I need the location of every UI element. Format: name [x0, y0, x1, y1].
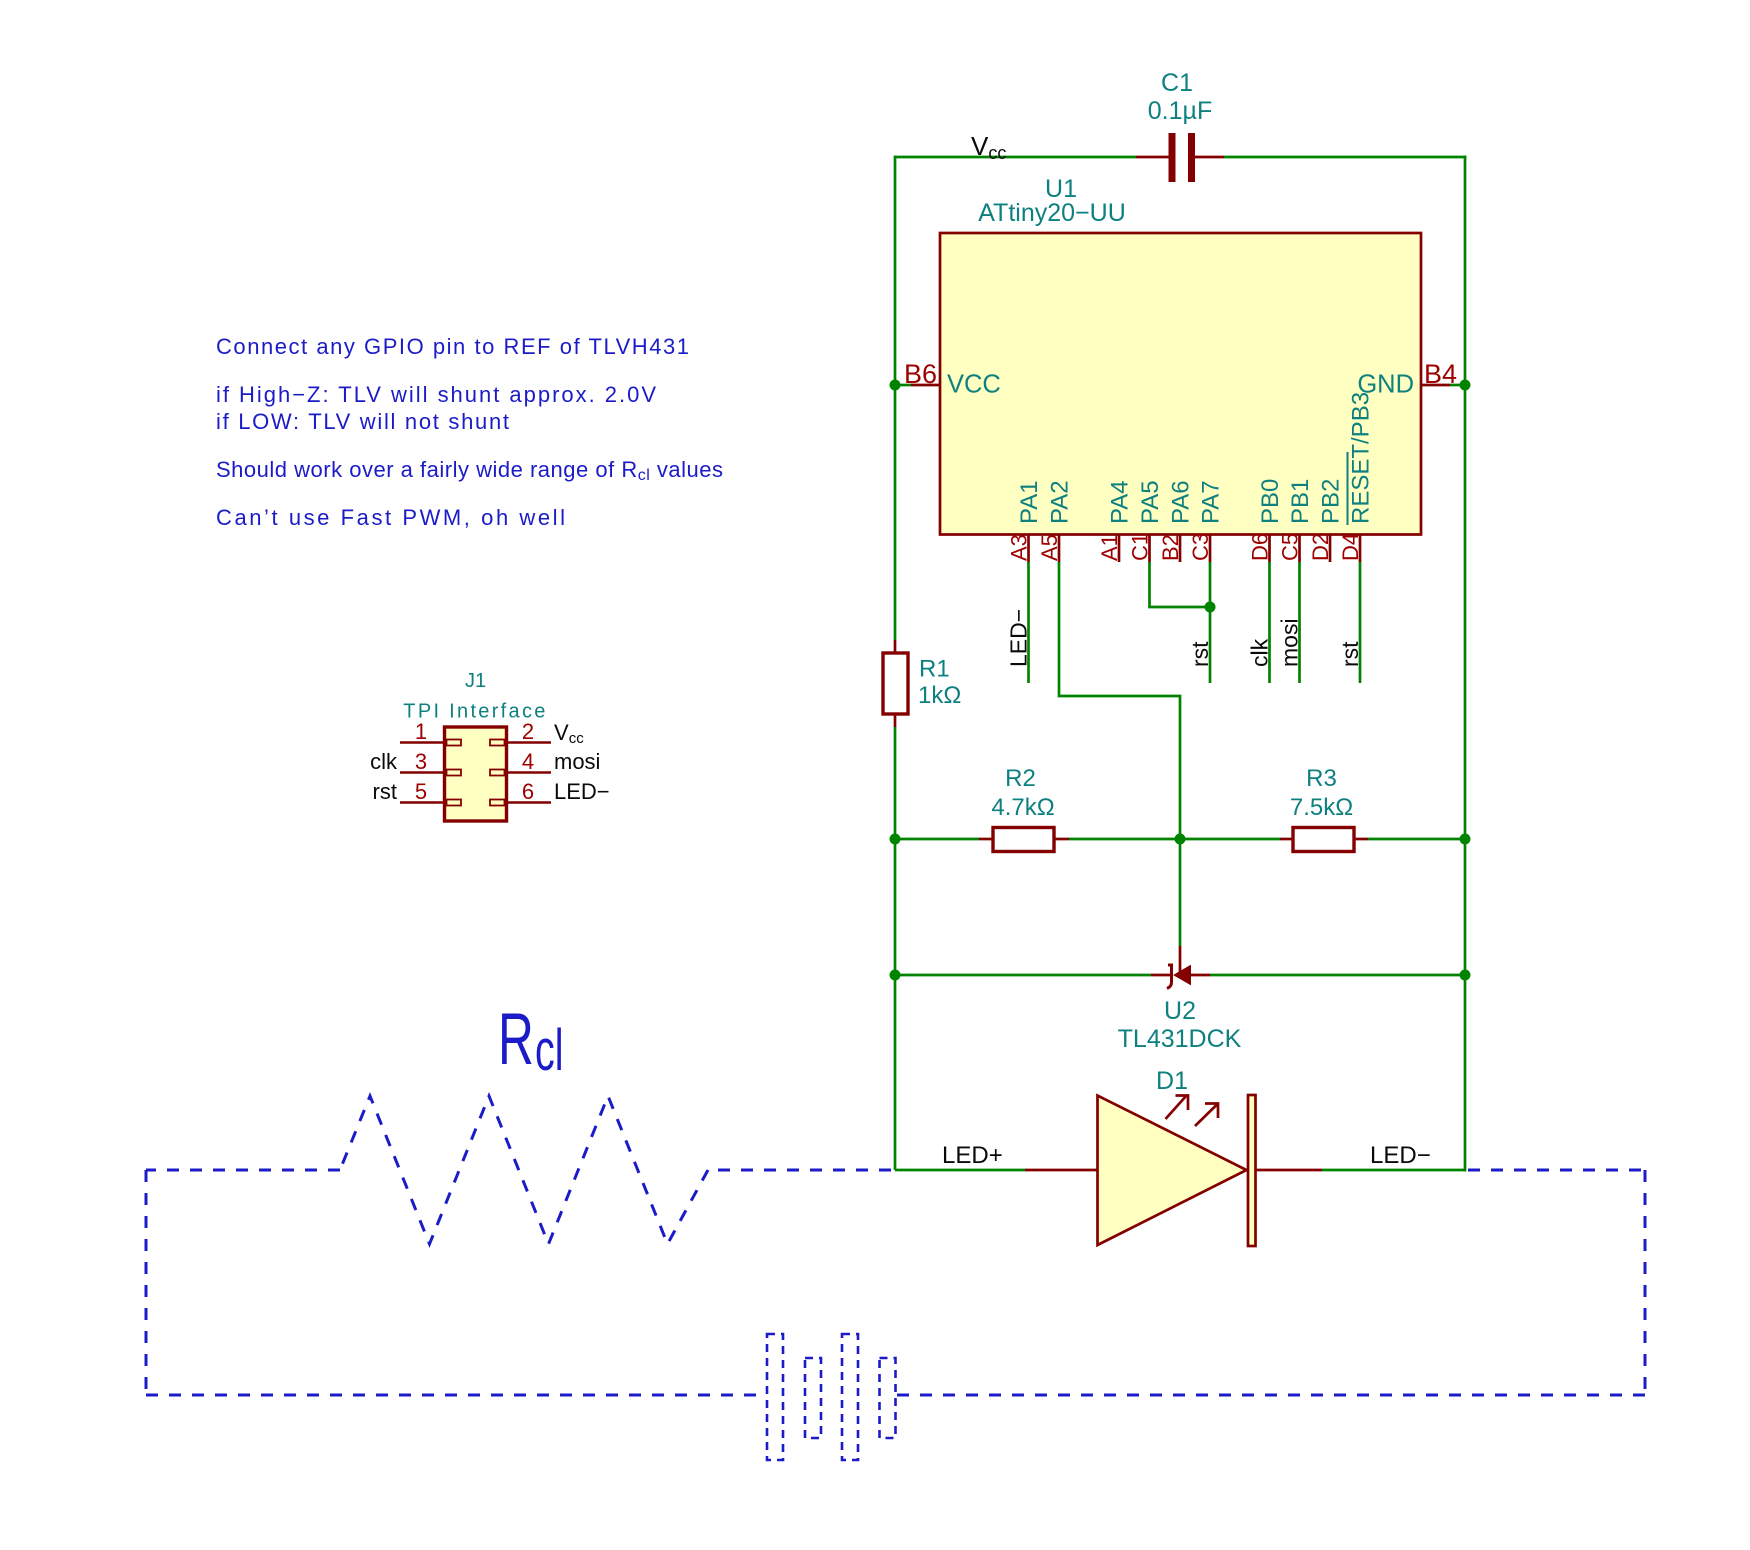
wire dashed LED- to right corner	[1468, 1169, 1645, 1172]
svg-text:rst: rst	[1337, 641, 1363, 667]
D1 triangle	[1098, 1096, 1247, 1246]
resistor R2 pins	[979, 838, 994, 841]
svg-text:J1: J1	[465, 670, 486, 692]
U2 cathode bar	[1167, 965, 1172, 989]
svg-text:TL431DCK: TL431DCK	[1118, 1025, 1242, 1053]
svg-text:D6: D6	[1248, 533, 1273, 561]
battery plate short 1	[805, 1358, 821, 1438]
svg-text:clk: clk	[370, 749, 398, 774]
svg-text:0.1µF: 0.1µF	[1148, 97, 1212, 125]
svg-text:D1: D1	[1156, 1067, 1188, 1095]
wire B4 stub	[1450, 384, 1465, 387]
wire Vcc top right segment	[1224, 156, 1467, 159]
wire R2 row left	[895, 838, 979, 841]
svg-text:A5: A5	[1037, 534, 1062, 561]
svg-text:mosi: mosi	[554, 749, 600, 774]
svg-text:PA2: PA2	[1047, 480, 1074, 524]
svg-text:C3: C3	[1188, 533, 1213, 561]
svg-text:U2: U2	[1164, 997, 1196, 1025]
svg-text:D2: D2	[1308, 533, 1333, 561]
U2 triangle	[1174, 966, 1191, 985]
svg-text:LED−: LED−	[1006, 609, 1032, 667]
wire U2 ref vertical	[1179, 839, 1182, 946]
wire pin PA7 down	[1209, 562, 1212, 683]
wire pin PA2 down + elbow	[1059, 562, 1180, 839]
junction R3 right	[1460, 834, 1471, 845]
svg-text:PB2: PB2	[1318, 479, 1345, 524]
pin B6 VCC line	[911, 384, 940, 387]
svg-text:B6: B6	[904, 359, 937, 389]
svg-text:D4: D4	[1338, 533, 1363, 561]
junction PA5/PA7	[1205, 602, 1216, 613]
svg-text:A1: A1	[1097, 534, 1122, 561]
J1 body	[445, 727, 507, 821]
wire R2 to middle junction	[1069, 838, 1280, 841]
svg-text:cl: cl	[535, 1017, 563, 1082]
svg-text:1kΩ: 1kΩ	[918, 682, 961, 709]
junction U2 left	[890, 970, 901, 981]
svg-text:7.5kΩ: 7.5kΩ	[1290, 794, 1353, 821]
svg-text:4: 4	[522, 749, 534, 774]
svg-text:C1: C1	[1161, 69, 1193, 97]
D1 pins	[1025, 1169, 1098, 1172]
pin stub A5	[1058, 535, 1061, 563]
capacitor C1 plates	[1169, 133, 1176, 182]
svg-text:if LOW: TLV will not shunt: if LOW: TLV will not shunt	[216, 409, 509, 434]
svg-text:PA5: PA5	[1137, 480, 1164, 524]
svg-text:R: R	[498, 999, 534, 1081]
wire Vcc top left segment	[895, 156, 1136, 159]
svg-text:C5: C5	[1278, 533, 1303, 561]
svg-text:4.7kΩ: 4.7kΩ	[991, 794, 1054, 821]
wire R3 to right vertical	[1368, 838, 1465, 841]
junction R2 left	[890, 834, 901, 845]
svg-text:LED+: LED+	[942, 1142, 1003, 1169]
svg-text:PA4: PA4	[1107, 480, 1134, 524]
wire U2 row right	[1210, 974, 1465, 977]
wire pin PA5 down + elbow	[1150, 562, 1211, 607]
svg-text:LED−: LED−	[554, 779, 610, 804]
overline on RESET	[1347, 452, 1349, 525]
wire right vertical	[1464, 156, 1467, 1172]
J1 pin numbers	[415, 719, 534, 804]
svg-text:PA6: PA6	[1168, 480, 1195, 524]
svg-text:LED−: LED−	[1370, 1142, 1431, 1169]
J1 pin notches	[447, 740, 505, 806]
svg-text:R1: R1	[919, 656, 950, 683]
svg-text:PB0: PB0	[1257, 479, 1284, 524]
pin stub D4	[1359, 535, 1362, 563]
wire left vertical upper	[894, 156, 897, 641]
D1 arrow 1	[1166, 1096, 1189, 1120]
wire U2 row left	[895, 974, 1151, 977]
svg-text:A3: A3	[1007, 534, 1032, 561]
svg-text:mosi: mosi	[1277, 618, 1303, 667]
svg-text:rst: rst	[373, 779, 397, 804]
svg-text:rst: rst	[1187, 641, 1213, 667]
svg-text:Can’t use Fast PWM, oh well: Can’t use Fast PWM, oh well	[216, 505, 565, 530]
op-amp U1 body	[940, 233, 1421, 535]
capacitor C1 pins	[1136, 156, 1169, 159]
junction B6	[890, 380, 901, 391]
wire dashed LED+ to zigzag	[708, 1169, 891, 1172]
svg-text:2: 2	[522, 719, 534, 744]
svg-text:1: 1	[415, 719, 427, 744]
battery plate short 2	[880, 1358, 896, 1438]
wire pin PB0 down	[1268, 562, 1271, 683]
junction B4	[1460, 380, 1471, 391]
wire LED-	[1322, 1169, 1465, 1172]
battery plate long 2	[842, 1334, 858, 1460]
svg-text:PA1: PA1	[1016, 480, 1043, 524]
svg-text:C1: C1	[1128, 533, 1153, 561]
D1 cathode bar	[1248, 1095, 1256, 1246]
svg-text:6: 6	[522, 779, 534, 804]
wire left vertical lower	[894, 727, 897, 1170]
svg-text:3: 3	[415, 749, 427, 774]
wire dashed zigzag to left corner	[146, 1169, 340, 1172]
pin stub B2	[1179, 535, 1182, 563]
wire dashed bottom right	[897, 1394, 1645, 1397]
J1 net labels	[370, 720, 610, 804]
resistor R1 pins	[894, 640, 897, 654]
svg-text:ATtiny20−UU: ATtiny20−UU	[978, 199, 1126, 227]
wire dashed bottom left	[146, 1394, 766, 1397]
resistor R2 body	[993, 828, 1054, 852]
wire LED+	[895, 1169, 1025, 1172]
U2 pins	[1151, 974, 1171, 977]
svg-text:clk: clk	[1247, 638, 1273, 667]
pin stub D2	[1329, 535, 1332, 563]
svg-text:B2: B2	[1158, 534, 1183, 561]
pin stub C1	[1148, 535, 1151, 563]
junction U2 right	[1460, 970, 1471, 981]
resistor R1 body	[883, 653, 908, 714]
svg-text:5: 5	[415, 779, 427, 804]
svg-text:VCC: VCC	[947, 371, 1001, 399]
pin stub A3	[1027, 535, 1030, 563]
pin stub D6	[1268, 535, 1271, 563]
resistor R3 body	[1293, 828, 1354, 852]
wire pin RESET down	[1359, 562, 1362, 683]
wire pin PA1 down	[1027, 562, 1030, 683]
svg-text:R3: R3	[1306, 765, 1337, 792]
pin stub C5	[1298, 535, 1301, 563]
junction R2/R3 middle	[1175, 834, 1186, 845]
resistor Rcl zigzag	[340, 1096, 708, 1244]
svg-text:PB1: PB1	[1287, 479, 1314, 524]
battery plate long 1	[767, 1334, 783, 1460]
svg-text:R2: R2	[1005, 765, 1036, 792]
wire dashed left vertical	[145, 1170, 148, 1395]
D1 arrow 2	[1195, 1104, 1218, 1127]
resistor R3 pins	[1280, 838, 1294, 841]
wire dashed right vertical	[1644, 1170, 1647, 1395]
pin stub C3	[1209, 535, 1212, 563]
svg-text:B4: B4	[1424, 359, 1457, 389]
svg-text:RESET/PB3: RESET/PB3	[1348, 392, 1375, 524]
svg-text:PA7: PA7	[1198, 480, 1225, 524]
pin B4 GND line	[1421, 384, 1450, 387]
svg-text:Connect any GPIO pin to REF of: Connect any GPIO pin to REF of TLVH431	[216, 334, 689, 359]
J1 pin lines left	[400, 743, 551, 803]
wire pin PB1 down	[1298, 562, 1301, 683]
pin stub A1	[1118, 535, 1121, 563]
wire B6 stub	[895, 384, 911, 387]
